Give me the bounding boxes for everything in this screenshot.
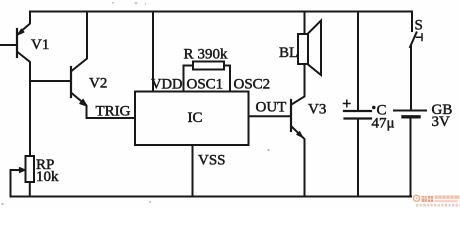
wire: capacitor C bottom lead xyxy=(357,119,359,197)
watermark logo bottom right xyxy=(413,195,460,206)
battery GB short plate xyxy=(403,115,419,118)
wire: V3 emitter to bottom rail xyxy=(292,127,305,197)
svg-text:47μ: 47μ xyxy=(372,116,395,132)
wire: V2 emitter to TRIG xyxy=(72,93,87,118)
transistor V1 bar xyxy=(16,29,18,57)
wire: V3 collector to speaker xyxy=(292,64,305,105)
wire: V1 emitter riser xyxy=(18,12,31,35)
battery GB long plate xyxy=(394,110,426,112)
svg-text:VSS: VSS xyxy=(198,153,226,169)
capacitor C bottom plate xyxy=(345,117,372,119)
svg-text:S: S xyxy=(415,18,423,34)
switch S blade xyxy=(410,33,417,48)
speaker BL horn xyxy=(308,21,321,76)
node dot for C xyxy=(372,106,375,109)
svg-text:VDD: VDD xyxy=(151,77,182,93)
wire: V1 collector drop to RP xyxy=(18,52,31,156)
svg-text:3V: 3V xyxy=(432,114,451,130)
wire: battery bottom lead xyxy=(410,119,412,197)
wire: OUT lead xyxy=(249,115,292,117)
switch S actuator tick xyxy=(417,34,423,41)
capacitor C top plate xyxy=(344,110,371,112)
wire: V2 base wire xyxy=(30,80,71,82)
transistor V3 emitter arrow xyxy=(297,132,303,138)
wire: bottom ground rail xyxy=(11,196,412,198)
wire: V2 collector riser to top rail xyxy=(72,12,88,72)
svg-text:V1: V1 xyxy=(31,37,49,53)
svg-text:V2: V2 xyxy=(89,76,107,92)
wire: V1 base lead to left edge xyxy=(0,44,17,46)
svg-text:V3: V3 xyxy=(308,102,326,118)
svg-text:IC: IC xyxy=(188,110,203,126)
wire: OSC1 pin riser xyxy=(184,66,194,92)
svg-text:OSC1: OSC1 xyxy=(187,77,224,93)
svg-text:OUT: OUT xyxy=(256,100,287,116)
transistor V2 emitter arrow xyxy=(80,99,87,106)
transistor V3 bar xyxy=(290,100,292,131)
svg-text:TRIG: TRIG xyxy=(96,104,131,120)
transistor V2 bar xyxy=(70,67,72,97)
potentiometer RP body xyxy=(26,156,35,182)
wire: speaker top lead xyxy=(304,12,306,35)
switch S corner drop xyxy=(411,12,413,32)
wire: resistor to OSC2 pin xyxy=(224,66,230,92)
wire: VSS lead to bottom rail xyxy=(192,146,194,197)
potentiometer RP wiper arrow xyxy=(20,168,26,173)
wire: top supply rail xyxy=(30,11,412,13)
svg-text:R: R xyxy=(184,47,194,63)
speaker BL body xyxy=(298,34,308,64)
IC body box xyxy=(135,92,249,146)
capacitor C polarity plus sign xyxy=(344,100,351,107)
wire: RP bottom lead xyxy=(29,182,31,197)
resistor R 390k body xyxy=(193,62,224,70)
transistor V1 emitter arrow xyxy=(18,29,24,35)
svg-text:OSC2: OSC2 xyxy=(234,77,271,93)
wire: switch to battery xyxy=(410,46,412,110)
wire: TRIG lead into IC xyxy=(87,117,136,119)
wire: capacitor C top lead xyxy=(357,12,359,112)
svg-text:390k: 390k xyxy=(198,47,229,63)
wire: RP wiper return xyxy=(11,170,25,197)
svg-text:BL: BL xyxy=(279,45,298,61)
svg-text:10k: 10k xyxy=(36,169,59,185)
wire: VDD riser xyxy=(152,12,154,92)
